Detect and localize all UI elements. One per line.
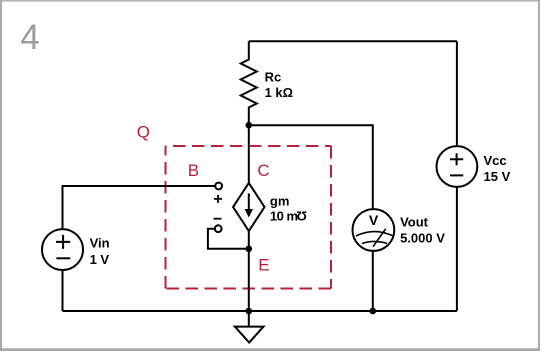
wire: collector node to voltmeter branch bbox=[249, 125, 373, 209]
polarity + of controlling voltage bbox=[214, 195, 222, 203]
wire: minus terminal to emitter node bbox=[208, 229, 249, 249]
ground bbox=[235, 311, 264, 343]
svg-text:B: B bbox=[188, 161, 199, 180]
wire: Vcc - to bottom rail bbox=[456, 187, 458, 311]
terminal - side (open circle) bbox=[215, 225, 222, 232]
wire: collector node down to current source bbox=[248, 125, 250, 183]
svg-text:Vcc: Vcc bbox=[484, 153, 507, 168]
voltmeter Vout bbox=[353, 209, 395, 251]
svg-text:E: E bbox=[258, 256, 269, 275]
svg-text:Rc: Rc bbox=[265, 70, 282, 85]
wire: current source bottom to bottom rail bbox=[248, 231, 250, 311]
wire: voltmeter bottom to bottom rail bbox=[372, 251, 374, 311]
wire: right vertical, top rail to Vcc + bbox=[456, 41, 458, 146]
svg-text:V: V bbox=[369, 212, 379, 228]
svg-text:4: 4 bbox=[20, 18, 39, 57]
svg-text:10 m: 10 m bbox=[270, 209, 298, 224]
node: collector junction dot bbox=[246, 122, 253, 129]
wire: Vin bottom to bottom rail bbox=[62, 270, 64, 311]
resistor Rc bbox=[241, 41, 257, 125]
node: emitter junction dot bbox=[246, 246, 253, 253]
terminal B (open circle) bbox=[215, 183, 222, 190]
svg-text:Q: Q bbox=[137, 123, 150, 142]
wire: Vin top to base terminal bbox=[63, 186, 216, 229]
current source arrow bbox=[248, 193, 250, 210]
svg-text:Vin: Vin bbox=[90, 236, 110, 251]
svg-text:1 V: 1 V bbox=[90, 252, 110, 267]
svg-text:Ω: Ω bbox=[296, 208, 306, 223]
voltage source Vcc bbox=[437, 146, 478, 187]
node: voltmeter junction dot bbox=[370, 308, 377, 315]
voltage source Vin bbox=[42, 229, 83, 270]
dependent current source gm (diamond) bbox=[233, 183, 264, 231]
transistor model boundary Q (red dashed box) bbox=[166, 146, 332, 289]
wire: top rail from Rc top to Vcc branch bbox=[249, 40, 457, 42]
svg-text:1 kΩ: 1 kΩ bbox=[265, 85, 294, 100]
node: ground junction dot bbox=[246, 308, 253, 315]
svg-text:15 V: 15 V bbox=[484, 169, 511, 184]
svg-text:C: C bbox=[257, 161, 269, 180]
svg-text:gm: gm bbox=[270, 194, 290, 209]
polarity - of controlling voltage bbox=[214, 218, 222, 220]
svg-text:5.000 V: 5.000 V bbox=[400, 231, 445, 246]
wire: bottom rail bbox=[63, 310, 457, 312]
svg-text:Vout: Vout bbox=[400, 215, 429, 230]
